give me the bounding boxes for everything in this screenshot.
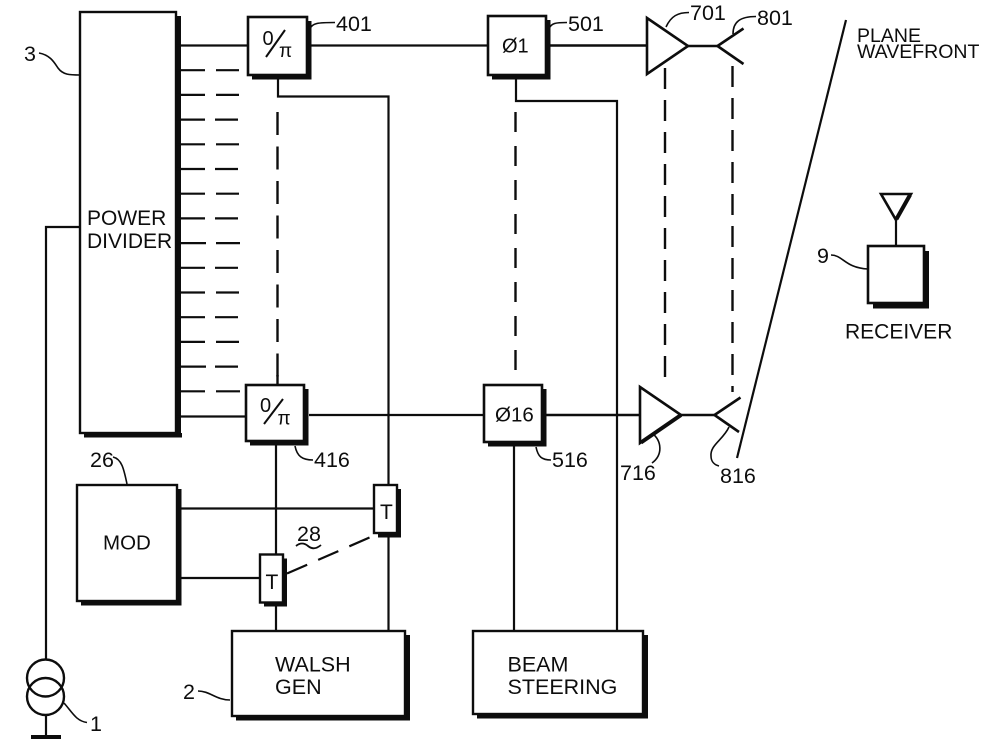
svg-text:401: 401 <box>336 12 372 36</box>
svg-text:1: 1 <box>90 712 102 736</box>
T switch box T2 <box>374 485 401 538</box>
svg-text:POWER: POWER <box>87 207 166 230</box>
wire: 416 down through T1 to walsh gen <box>275 443 277 631</box>
power divider box (3) <box>80 12 182 438</box>
svg-text:3: 3 <box>24 42 36 66</box>
wire: P16 down to beam steering <box>513 445 515 631</box>
svg-text:2: 2 <box>183 680 195 704</box>
svg-text:0: 0 <box>260 395 271 417</box>
wire: source to ground <box>45 715 47 737</box>
svg-text:π: π <box>278 409 291 430</box>
power divider dashed stubs <box>215 70 240 391</box>
svg-text:701: 701 <box>690 1 726 25</box>
wire: source to power divider <box>46 227 80 659</box>
wire: power divider to phase shifter 416 <box>176 415 246 417</box>
dashed wire: amp 701 to amp 716 <box>664 68 666 385</box>
svg-text:416: 416 <box>314 448 350 472</box>
ground <box>31 735 61 739</box>
wire: power divider to phase shifter 401 <box>176 44 248 46</box>
svg-text:MOD: MOD <box>103 532 151 555</box>
svg-text:816: 816 <box>720 464 756 488</box>
svg-text:π: π <box>279 41 292 62</box>
antenna 816 <box>681 398 741 433</box>
label 516 with leader <box>536 447 588 472</box>
beam steering box <box>473 631 648 719</box>
svg-text:WAVEFRONT: WAVEFRONT <box>857 41 979 63</box>
svg-text:716: 716 <box>620 461 656 485</box>
signal source (1) <box>27 660 64 716</box>
dashed wire: antenna 801 to antenna 816 <box>731 66 733 392</box>
wire: 416 to phase shifter P16 <box>309 414 484 416</box>
svg-text:GEN: GEN <box>275 675 322 699</box>
plane wavefront label <box>857 25 979 63</box>
label 501 with leader <box>549 12 604 36</box>
wire: mod to T2 <box>181 507 374 509</box>
svg-text:STEERING: STEERING <box>508 675 618 699</box>
T switch box T1 <box>260 555 287 607</box>
power divider output ticks <box>176 70 206 391</box>
wire: 401 control jog down to T and walsh gen <box>278 79 389 631</box>
svg-text:9: 9 <box>817 244 829 268</box>
svg-text:0: 0 <box>263 28 274 50</box>
label 816 with leader <box>711 427 756 488</box>
svg-text:501: 501 <box>568 12 604 36</box>
phase shifter P16 box (516) <box>484 385 547 447</box>
svg-text:Ø16: Ø16 <box>495 404 534 427</box>
wire: P1 to amplifier 701 <box>550 44 647 46</box>
amplifier 716 <box>640 387 681 443</box>
walsh gen box (2) <box>232 631 410 721</box>
svg-text:26: 26 <box>90 448 114 472</box>
dashed wire: 401 to 416 <box>276 112 278 377</box>
wire: 401 to phase shifter P1 <box>311 44 488 46</box>
dashed wire: P1 to P16 <box>514 112 516 383</box>
label 701 with leader <box>666 1 726 27</box>
svg-text:516: 516 <box>552 448 588 472</box>
phase shifter 0/pi box (401) <box>248 17 312 80</box>
label 1 with leader <box>64 703 102 736</box>
receiver box (9) <box>845 246 952 344</box>
label 716 with leader <box>620 433 660 485</box>
phase shifter 0/pi box (416) <box>246 385 309 446</box>
label 2 with leader <box>183 680 230 704</box>
label 416 with leader <box>295 446 350 472</box>
receiver antenna <box>881 194 911 246</box>
svg-text:T: T <box>266 571 279 594</box>
svg-text:RECEIVER: RECEIVER <box>845 321 952 344</box>
label 9 with leader <box>817 244 868 269</box>
svg-text:DIVIDER: DIVIDER <box>87 230 172 253</box>
svg-text:801: 801 <box>757 6 793 30</box>
svg-text:28: 28 <box>297 522 321 546</box>
label 28 with tilde <box>296 522 321 548</box>
svg-text:Ø1: Ø1 <box>502 36 529 58</box>
label 401 with leader <box>310 12 372 36</box>
svg-text:T: T <box>380 501 393 524</box>
label 801 with leader <box>733 6 793 34</box>
wire: P16 to amplifier 716 <box>546 414 640 416</box>
wire: P1 control jog down to beam steering <box>516 79 617 631</box>
amplifier 701 <box>647 18 688 74</box>
svg-text:BEAM: BEAM <box>508 653 569 677</box>
svg-text:WALSH: WALSH <box>275 653 351 677</box>
label 3 with leader <box>24 42 80 75</box>
label 26 with leader <box>90 448 127 484</box>
dashed link T1 to T2 (28) <box>287 536 373 574</box>
mod box (26) <box>77 485 182 606</box>
wire: mod to T1 <box>181 577 260 579</box>
phase shifter P1 box (501) <box>488 16 551 80</box>
plane wavefront line <box>737 20 846 458</box>
antenna 801 <box>688 29 744 65</box>
